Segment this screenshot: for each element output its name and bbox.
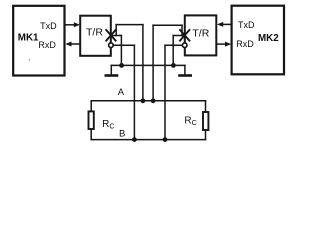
driver output X symbol left	[106, 30, 115, 41]
wire left X to ground junction	[120, 36, 122, 66]
block MK1	[13, 6, 64, 76]
svg-text:RxD: RxD	[38, 40, 56, 50]
svg-text:A: A	[118, 87, 125, 98]
block MK2	[232, 6, 284, 75]
transceiver U2 T/R right box	[185, 15, 217, 55]
svg-text:T/R: T/R	[86, 27, 103, 39]
junction dot line A left	[141, 98, 146, 103]
wire TxD MK1 to T/R	[65, 24, 76, 26]
wire down to line A right	[152, 25, 154, 101]
wire down to line A left	[142, 25, 144, 101]
wire RxD T/R to MK1	[71, 43, 81, 45]
wire TxD MK2 to T/R	[222, 23, 232, 25]
ground symbol left	[110, 65, 112, 74]
junction dot line A right	[151, 98, 156, 103]
svg-text:TxD: TxD	[40, 21, 57, 31]
wire RxD T/R to MK2	[216, 43, 226, 45]
junction dot ground right	[171, 63, 176, 68]
resistor RC right	[205, 101, 207, 112]
resistor RC left	[90, 101, 92, 111]
svg-text:MK1: MK1	[18, 33, 39, 44]
junction dot line B right	[163, 137, 168, 142]
wire down to line B right	[164, 45, 166, 139]
svg-text:RC: RC	[184, 115, 196, 127]
receiver input circle right	[182, 43, 187, 48]
wire top bridge left	[116, 24, 143, 26]
wire down to line B left	[133, 45, 135, 139]
receiver input circle left	[109, 43, 114, 48]
ground bus wire	[111, 64, 185, 66]
svg-text:B: B	[119, 128, 125, 139]
wire bridge vertical left	[115, 25, 117, 36]
svg-text:RC: RC	[102, 119, 114, 131]
wire top bridge right	[153, 24, 182, 26]
wire stub from circle left	[113, 44, 134, 46]
svg-text:MK2: MK2	[258, 33, 279, 44]
wire stub from X left	[111, 35, 122, 37]
arrowhead RxD into MK2	[225, 42, 231, 47]
svg-text:TxD: TxD	[238, 20, 255, 30]
transceiver U1 T/R left box	[80, 16, 111, 56]
arrowhead TxD into T/R left	[74, 22, 80, 27]
arrowhead TxD into T/R right	[217, 22, 223, 27]
driver output X symbol right	[180, 30, 189, 41]
wire stub from X right	[173, 35, 185, 37]
junction dot line B left	[132, 137, 137, 142]
wire bridge vertical right	[181, 25, 183, 35]
speck inside MK1	[29, 59, 31, 61]
junction dot ground left	[119, 63, 124, 68]
arrowhead RxD into MK1	[65, 42, 71, 47]
wire right X to ground junction	[172, 36, 174, 66]
bus line A	[91, 100, 205, 102]
svg-text:T/R: T/R	[192, 28, 209, 40]
bus line B	[91, 139, 205, 141]
ground symbol right	[184, 65, 186, 74]
svg-text:RxD: RxD	[236, 39, 254, 49]
wire stub from circle right	[165, 44, 182, 46]
